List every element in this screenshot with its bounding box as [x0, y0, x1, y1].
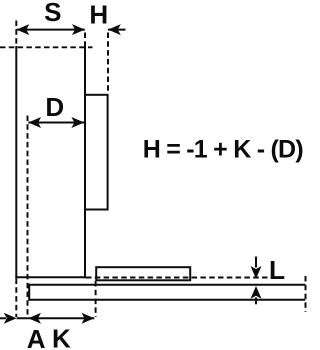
svg-text:A: A [27, 324, 46, 350]
door panel bottom edge [15, 276, 86, 278]
dimension H extension line (dashed, x=108) [107, 33, 109, 95]
dimension L upper arrow (pointing down) [251, 257, 262, 279]
dimension A left arrow (pointing right) [0, 313, 17, 324]
dimension H extension line (dashed, x=85 top) [84, 33, 86, 47]
dimension K extension line (dashed, x=95.6) [95, 281, 97, 317]
cabinet top reference line (dashed horizontal) [0, 46, 93, 48]
svg-text:L: L [269, 255, 285, 285]
dimension K right arrow (pointing right) [82, 313, 95, 324]
door panel right edge [84, 46, 86, 278]
dimension D/K extension line (dashed, x=28) [27, 116, 29, 318]
svg-text:K: K [52, 323, 71, 350]
svg-text:S: S [44, 0, 61, 27]
dimension S extension line (dashed, x=16 top) [15, 21, 17, 47]
door panel left edge [15, 46, 17, 278]
door bottom reference line (dashed horizontal) [86, 277, 284, 279]
dimension A extension line (dashed, x=16 bottom) [15, 279, 17, 318]
cabinet bottom panel left edge [28, 284, 30, 301]
dimension H arrow (right, pointing left) [108, 24, 126, 35]
svg-text:H: H [89, 0, 108, 29]
svg-text:D: D [45, 92, 64, 122]
cabinet panel break line (dashed, right edge) [305, 276, 307, 312]
mounting plate rectangle [96, 267, 190, 280]
hinge arm body rectangle [85, 95, 108, 210]
dimension S arrow [17, 24, 85, 35]
dimension D arrow [28, 117, 84, 128]
dimension K left arrow (pointing left) [28, 313, 41, 324]
dimension L lower arrow (pointing up) [251, 286, 262, 304]
cabinet bottom panel bottom edge [29, 299, 305, 301]
svg-text:H = -1 + K - (D): H = -1 + K - (D) [143, 136, 304, 164]
dimension A/K shared arrow line [17, 317, 95, 319]
cabinet bottom panel top edge [29, 284, 305, 286]
